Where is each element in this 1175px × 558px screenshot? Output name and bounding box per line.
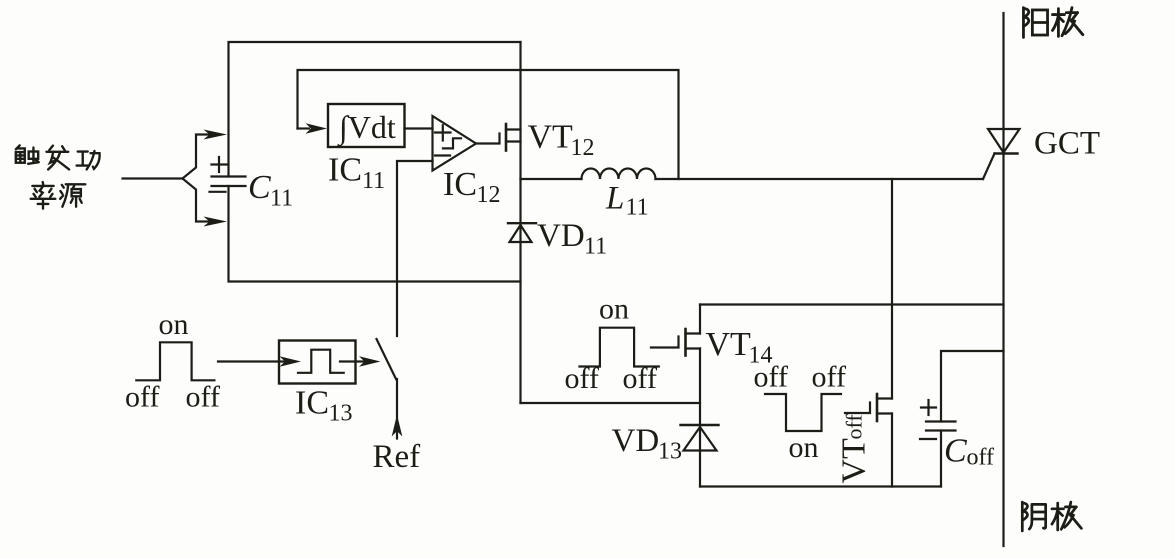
svg-text:GCT: GCT (1034, 126, 1100, 162)
svg-text:L: L (605, 181, 624, 217)
svg-text:off: off (967, 445, 995, 471)
lower box left edge upper (699, 305, 701, 334)
lower box top edge (700, 303, 1004, 305)
label VToff (rotated) (836, 414, 873, 484)
svg-text:IC: IC (443, 166, 477, 203)
svg-text:13: 13 (658, 439, 682, 465)
svg-text:VT: VT (528, 119, 574, 156)
main gate wire (521, 178, 582, 180)
svg-text:on: on (789, 431, 819, 464)
inductor L11 (582, 169, 656, 180)
transistor VToff (845, 394, 892, 421)
transistor VT12 (506, 124, 521, 151)
svg-text:off: off (812, 361, 846, 394)
main control box (229, 42, 521, 282)
svg-text:C: C (944, 433, 967, 470)
lower box left edge lower (699, 349, 701, 487)
label 触发功率源 (trigger power source) (16, 145, 100, 208)
wire integrator to op-amp (405, 127, 433, 129)
svg-text:VD: VD (612, 423, 660, 459)
svg-text:11: 11 (626, 195, 649, 221)
svg-text:C: C (248, 169, 271, 206)
feedback wire top (298, 70, 679, 179)
svg-text:on: on (159, 308, 189, 341)
switch blade (377, 339, 397, 379)
diode VD11 (508, 223, 536, 242)
svg-text:off: off (565, 362, 599, 395)
svg-text:13: 13 (329, 401, 353, 427)
wire VToff drain from gate wire (891, 179, 893, 399)
waveform on/off for VT14 (580, 328, 659, 367)
wire VD11 branch down to lower stage (521, 402, 701, 404)
arrow into C11 bottom (204, 217, 228, 227)
arrow IC13 to switch (340, 360, 364, 362)
svg-text:12: 12 (477, 182, 501, 208)
capacitor Coff (920, 351, 1004, 487)
capacitor C11 (210, 157, 246, 192)
svg-text:off: off (186, 381, 220, 414)
fork brace to C11 (183, 135, 211, 222)
label 阴极 (cathode) (1022, 502, 1081, 531)
arrow into integrator (298, 127, 310, 129)
pulse symbol inside IC13 (298, 350, 344, 373)
waveform off/on/off for VToff (765, 394, 841, 431)
op-amp IC12 (schmitt) (433, 116, 477, 171)
wire op-amp output to VT12 gate (476, 134, 500, 144)
diode VD13 (681, 425, 719, 451)
transistor VT14 (651, 329, 700, 356)
svg-text:on: on (599, 293, 629, 326)
wire box right edge / VT12 drain-source (519, 42, 521, 403)
svg-text:IC: IC (328, 152, 362, 189)
svg-text:∫Vdt: ∫Vdt (337, 109, 396, 147)
integrator box ∫Vdt (328, 104, 405, 147)
svg-text:IC: IC (295, 385, 329, 422)
wire from trigger source (123, 177, 183, 179)
svg-text:off: off (842, 414, 867, 440)
svg-text:11: 11 (584, 234, 607, 260)
wire op-amp minus input from Ref switch (397, 161, 433, 336)
arrow waveform to IC13 (218, 360, 285, 362)
lower box bottom edge (700, 485, 941, 487)
svg-text:11: 11 (362, 168, 385, 194)
GCT cathode-anode line (1002, 13, 1004, 546)
label 阳极 (anode) (1023, 8, 1082, 38)
waveform on/off into IC13 (136, 342, 214, 380)
svg-text:off: off (754, 361, 788, 394)
svg-text:VT: VT (706, 326, 752, 363)
wire Ref with up arrow (396, 379, 398, 439)
arrow into C11 top (204, 130, 228, 140)
svg-text:VD: VD (537, 218, 585, 254)
svg-text:VT: VT (836, 438, 873, 484)
svg-text:off: off (125, 381, 159, 414)
svg-text:Ref: Ref (373, 439, 421, 475)
monostable box IC13 (279, 341, 356, 384)
thyristor GCT (983, 129, 1020, 179)
svg-text:12: 12 (571, 135, 595, 161)
svg-text:11: 11 (270, 186, 293, 212)
svg-text:off: off (623, 362, 657, 395)
